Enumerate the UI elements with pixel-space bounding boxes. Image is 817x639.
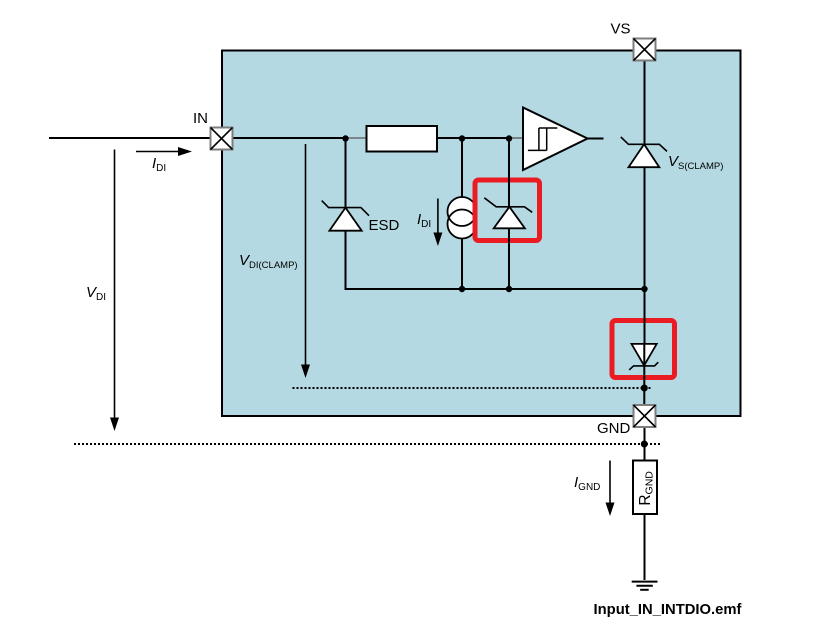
- svg-text:Input_IN_INTDIO.emf: Input_IN_INTDIO.emf: [594, 602, 742, 618]
- svg-text:GND: GND: [597, 420, 631, 437]
- svg-text:IGND: IGND: [574, 474, 600, 493]
- svg-text:IDI: IDI: [152, 155, 166, 174]
- svg-text:VS: VS: [611, 21, 631, 38]
- svg-text:IN: IN: [193, 110, 208, 127]
- svg-text:VDI: VDI: [86, 284, 106, 303]
- svg-text:ESD: ESD: [369, 217, 400, 234]
